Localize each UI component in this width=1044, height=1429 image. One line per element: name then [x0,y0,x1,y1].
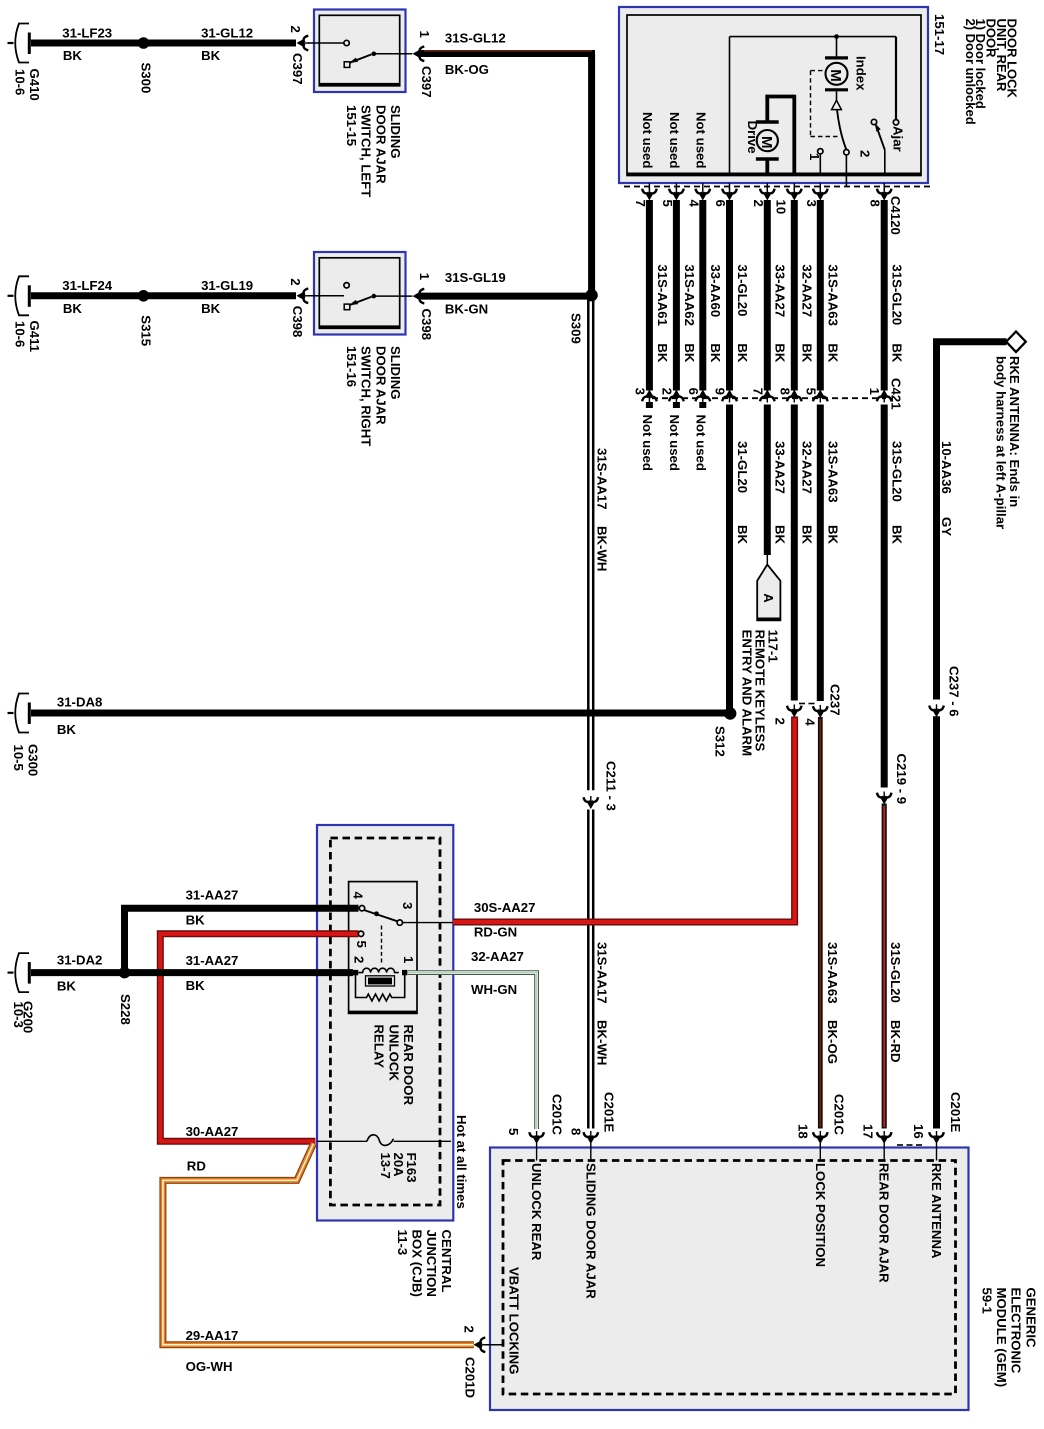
svg-text:33-AA60BK: 33-AA60BK [708,264,723,363]
svg-text:1: 1 [417,31,432,38]
svg-text:9: 9 [713,388,728,395]
svg-text:Not used: Not used [693,415,708,471]
svg-text:18: 18 [796,1124,811,1139]
svg-text:S309: S309 [568,313,583,344]
svg-text:151-17: 151-17 [932,14,947,55]
svg-text:BK: BK [57,979,77,994]
svg-text:VBATT LOCKING: VBATT LOCKING [507,1267,522,1374]
svg-text:BOX (CJB): BOX (CJB) [410,1230,425,1297]
svg-text:7: 7 [633,200,648,207]
svg-text:10: 10 [773,200,788,215]
svg-text:C397: C397 [419,66,434,98]
svg-text:C237: C237 [827,684,842,716]
svg-text:31S-GL20BK-RD: 31S-GL20BK-RD [888,942,903,1063]
svg-text:2: 2 [751,200,766,207]
svg-text:DOOR AJAR: DOOR AJAR [373,105,388,184]
svg-text:2: 2 [773,718,788,725]
svg-text:Not used: Not used [667,415,682,471]
svg-text:M: M [827,69,844,82]
svg-text:G300: G300 [26,744,41,776]
svg-text:31-AA27: 31-AA27 [186,887,239,902]
svg-text:BK: BK [63,48,83,63]
svg-text:Not used: Not used [667,112,682,168]
svg-text:CENTRAL: CENTRAL [439,1230,454,1293]
svg-text:31S-AA63BK: 31S-AA63BK [826,264,841,363]
svg-text:BK: BK [186,913,206,928]
svg-text:C201D: C201D [462,1357,477,1398]
svg-text:8: 8 [868,200,883,207]
svg-text:4: 4 [686,200,701,208]
svg-text:BK: BK [201,48,221,63]
svg-text:1: 1 [417,273,432,280]
svg-text:5: 5 [354,941,369,948]
svg-text:151-15: 151-15 [344,105,359,146]
svg-text:C219 - 9: C219 - 9 [894,754,909,805]
svg-text:C211 - 3: C211 - 3 [604,761,619,811]
svg-text:G411: G411 [27,321,42,353]
svg-text:2: 2 [352,956,367,963]
svg-text:31S-GL19: 31S-GL19 [445,270,506,285]
svg-text:5: 5 [660,200,675,207]
svg-text:Hot at all times: Hot at all times [454,1115,469,1209]
svg-text:6: 6 [713,200,728,207]
svg-text:8: 8 [777,388,792,395]
svg-text:29-AA17: 29-AA17 [186,1328,239,1343]
svg-text:BK: BK [186,978,206,993]
svg-text:11-3: 11-3 [395,1230,410,1256]
svg-text:BK: BK [57,722,77,737]
svg-text:13-7: 13-7 [378,1153,393,1179]
svg-text:C398: C398 [290,306,305,338]
svg-text:S312: S312 [713,726,728,757]
svg-text:DOOR AJAR: DOOR AJAR [373,346,388,425]
svg-text:C421: C421 [889,378,904,410]
svg-text:SWITCH, RIGHT: SWITCH, RIGHT [359,346,374,446]
svg-text:ELECTRONIC: ELECTRONIC [1009,1288,1024,1374]
svg-text:S228: S228 [118,994,133,1025]
svg-text:5: 5 [803,388,818,395]
svg-text:A: A [761,593,776,603]
svg-text:5: 5 [506,1128,521,1135]
svg-text:31S-GL12: 31S-GL12 [445,30,506,45]
svg-text:C201E: C201E [602,1092,617,1133]
svg-text:BK: BK [201,301,221,316]
svg-text:4: 4 [802,718,817,726]
svg-text:C201C: C201C [831,1094,846,1136]
svg-text:2: 2 [288,26,303,33]
svg-text:10-6: 10-6 [13,69,28,95]
svg-text:2: 2 [288,278,303,285]
svg-text:C398: C398 [419,309,434,341]
svg-text:31S-GL20BK: 31S-GL20BK [890,264,905,363]
svg-text:RD: RD [187,1159,206,1174]
svg-text:C201E: C201E [948,1092,963,1133]
svg-text:3: 3 [632,388,647,395]
svg-text:ENTRY AND ALARM: ENTRY AND ALARM [740,630,755,757]
svg-text:32-AA27BK: 32-AA27BK [800,441,815,545]
svg-text:30-AA27: 30-AA27 [186,1124,239,1139]
svg-text:Not used: Not used [640,112,655,168]
svg-text:RKE ANTENNA: RKE ANTENNA [929,1163,944,1259]
svg-text:C237 - 6: C237 - 6 [947,666,962,717]
svg-text:LOCK POSITION: LOCK POSITION [813,1163,828,1267]
svg-text:1: 1 [807,153,822,160]
svg-text:Index: Index [854,56,869,91]
svg-text:C201C: C201C [550,1094,565,1136]
svg-text:59-1: 59-1 [980,1288,995,1314]
svg-text:1: 1 [401,956,416,963]
svg-text:31S-AA63BK: 31S-AA63BK [826,441,841,545]
svg-text:4: 4 [351,892,366,900]
svg-text:UNLOCK REAR: UNLOCK REAR [529,1163,544,1261]
svg-text:GENERIC: GENERIC [1023,1288,1038,1349]
svg-text:Not used: Not used [693,112,708,168]
svg-text:31S-GL20BK: 31S-GL20BK [890,441,905,545]
svg-text:32-AA27BK: 32-AA27BK [800,264,815,363]
svg-text:G410: G410 [27,69,42,101]
svg-text:2: 2 [659,388,674,395]
svg-text:10-5: 10-5 [11,745,26,771]
svg-text:Not used: Not used [640,415,655,471]
svg-text:OG-WH: OG-WH [186,1359,233,1374]
svg-text:17: 17 [861,1124,876,1139]
svg-text:3: 3 [804,200,819,207]
svg-text:7: 7 [750,388,765,395]
svg-text:REAR DOOR: REAR DOOR [401,1025,416,1106]
svg-text:body harness at left A-pillar: body harness at left A-pillar [994,356,1009,529]
svg-text:16: 16 [911,1124,926,1139]
svg-text:32-AA27: 32-AA27 [471,949,524,964]
svg-text:10-AA36GY: 10-AA36GY [939,441,954,536]
svg-text:Ajar: Ajar [891,126,906,152]
svg-text:Drive: Drive [745,121,760,154]
svg-text:S315: S315 [139,315,154,346]
svg-text:REAR DOOR AJAR: REAR DOOR AJAR [877,1163,892,1283]
svg-text:6: 6 [686,388,701,395]
svg-text:SLIDING DOOR AJAR: SLIDING DOOR AJAR [583,1163,598,1299]
svg-text:RD-GN: RD-GN [474,924,517,939]
svg-text:3: 3 [400,902,415,909]
svg-text:33-AA27BK: 33-AA27BK [773,264,788,363]
svg-text:31-LF23: 31-LF23 [62,25,112,40]
svg-text:C397: C397 [290,53,305,85]
svg-text:31S-AA61BK: 31S-AA61BK [655,264,670,363]
svg-text:31S-AA62BK: 31S-AA62BK [682,264,697,363]
svg-text:31-DA8: 31-DA8 [57,694,102,709]
svg-text:UNLOCK: UNLOCK [386,1025,401,1082]
svg-text:31-LF24: 31-LF24 [62,278,113,293]
svg-text:SLIDING: SLIDING [388,105,403,158]
svg-text:10-6: 10-6 [13,321,28,347]
svg-text:SWITCH, LEFT: SWITCH, LEFT [359,105,374,197]
svg-text:BK-GN: BK-GN [445,301,488,316]
svg-text:30S-AA27: 30S-AA27 [474,900,536,915]
svg-text:MODULE (GEM): MODULE (GEM) [994,1288,1009,1388]
svg-text:31-DA2: 31-DA2 [57,952,102,967]
svg-text:151-16: 151-16 [344,346,359,387]
svg-text:SLIDING: SLIDING [388,346,403,399]
svg-text:31-GL20BK: 31-GL20BK [735,264,750,363]
svg-text:31-GL19: 31-GL19 [201,278,253,293]
svg-text:8: 8 [569,1128,584,1135]
svg-text:2) Door unlocked: 2) Door unlocked [963,19,978,125]
svg-text:31-GL20BK: 31-GL20BK [735,441,750,545]
svg-text:JUNCTION: JUNCTION [424,1230,439,1297]
svg-text:S300: S300 [139,63,154,94]
svg-text:2: 2 [858,150,873,157]
svg-text:C4120: C4120 [888,196,903,235]
svg-text:31-GL12: 31-GL12 [201,25,253,40]
svg-text:31S-AA63BK-OG: 31S-AA63BK-OG [825,942,840,1064]
svg-text:33-AA27BK: 33-AA27BK [773,441,788,545]
svg-text:BK: BK [63,301,83,316]
svg-text:31-AA27: 31-AA27 [186,953,239,968]
svg-text:WH-GN: WH-GN [471,982,517,997]
svg-text:1: 1 [867,388,882,395]
svg-text:RELAY: RELAY [372,1025,387,1069]
svg-text:10-3: 10-3 [11,1002,26,1028]
svg-text:2: 2 [462,1326,477,1333]
svg-text:BK-OG: BK-OG [445,62,489,77]
